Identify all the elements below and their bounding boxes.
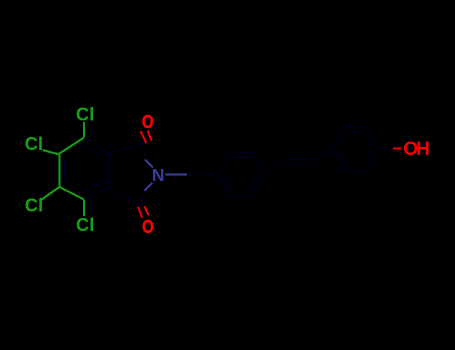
bond C7a-C1 (109, 143, 147, 154)
bond N-phenyl navy half (187, 174, 219, 176)
C1=O double bond (141, 131, 147, 143)
wire LL-B (60, 187, 85, 200)
wire T-UL (60, 138, 85, 154)
svg-text:Cl: Cl (76, 215, 94, 235)
svg-text:Cl: Cl (25, 196, 43, 216)
ring1 inner doubles (233, 156, 249, 158)
phenyl ring 2 (333, 127, 377, 171)
bond N-phenyl blue half (166, 174, 188, 176)
bond C-OH navy half (377, 148, 393, 151)
wire LR-UR fusion (108, 154, 110, 188)
wire B-LR inner double (82, 181, 104, 193)
bond C3-N blue half (145, 183, 153, 191)
bond C-Cl left-top (43, 150, 60, 155)
wire B-LR (84, 187, 109, 200)
bond C1-N blue half (145, 160, 153, 168)
ring2 inner doubles (347, 131, 363, 133)
svg-text:O: O (142, 216, 154, 237)
bond C-Cl left-bottom (42, 187, 60, 200)
bond C3-N navy half (141, 191, 145, 206)
bond C-OH red half (393, 148, 401, 150)
bond C-Cl top (83, 122, 85, 138)
bond ring1-Ca (263, 162, 285, 175)
wire UR-T inner double (82, 145, 104, 157)
svg-text:Cl: Cl (76, 105, 94, 125)
wire UR-T (84, 138, 109, 154)
bond Cb-ring2 (311, 149, 333, 162)
bond C1-N navy half (145, 143, 146, 160)
svg-text:OH: OH (403, 139, 430, 160)
vinyl double bond Ca=Cb (285, 163, 311, 165)
svg-text:N: N (152, 165, 165, 185)
wire UL-LL left vertical (59, 154, 61, 188)
phenyl ring 1 (219, 152, 263, 196)
bond C3a-C3 (109, 187, 141, 206)
svg-text:Cl: Cl (25, 134, 43, 154)
svg-text:O: O (142, 111, 154, 132)
C3=O double bond (138, 207, 142, 218)
wire UL-LL inner double (64, 158, 66, 183)
bond C-Cl bottom (83, 200, 85, 217)
benzene ring tetrachloro (green edges) (42, 122, 85, 216)
